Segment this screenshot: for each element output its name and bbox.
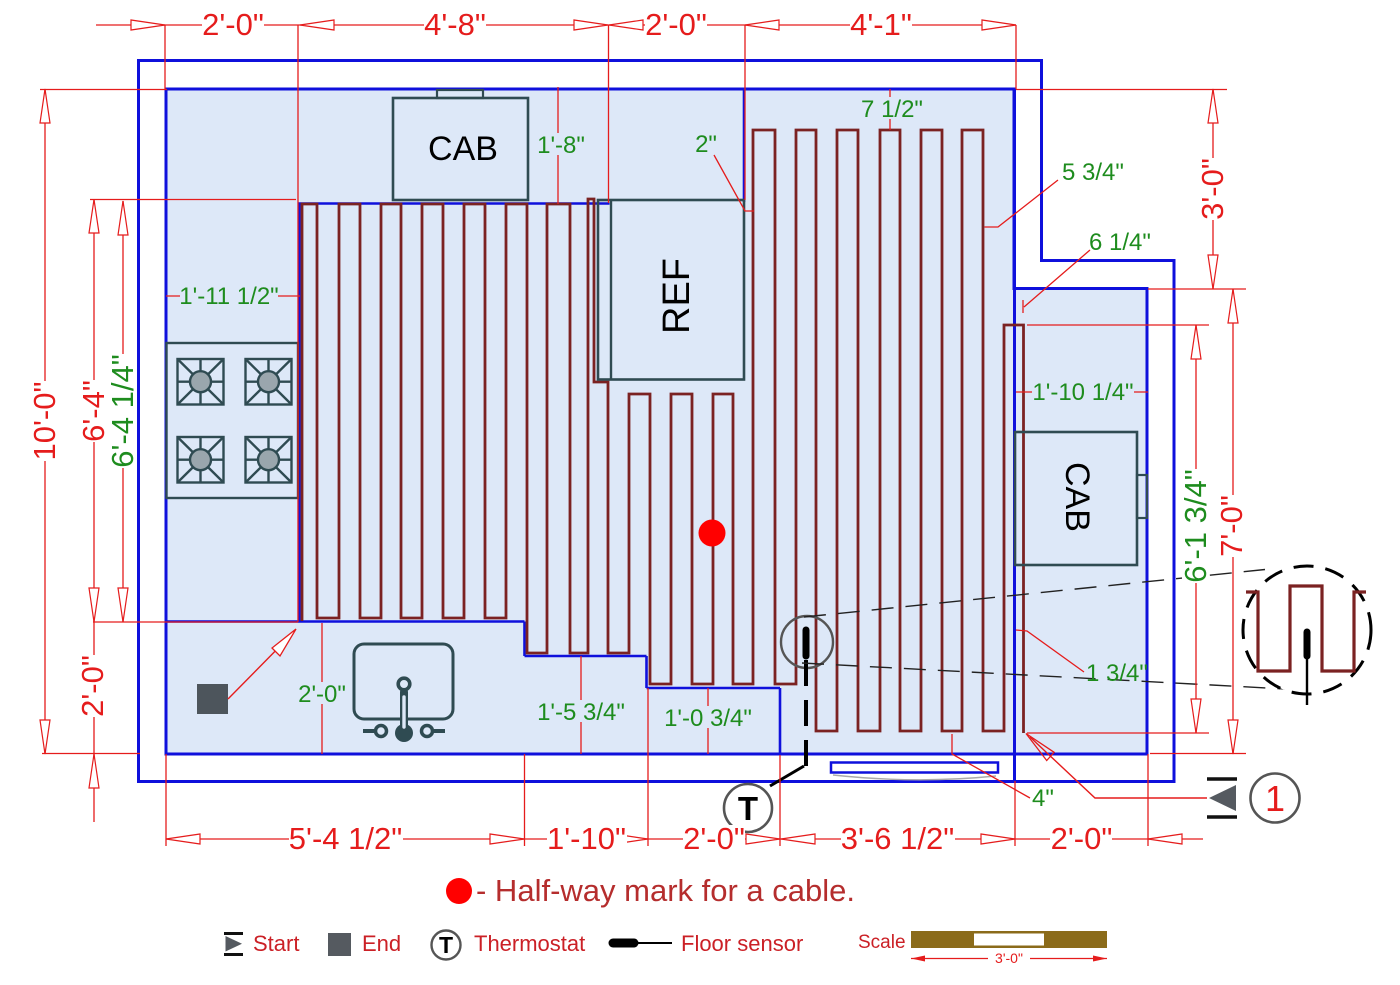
svg-text:1'-10": 1'-10" <box>547 821 626 856</box>
half-way mark red dot <box>699 520 726 547</box>
leader 6 1/4 <box>1023 250 1090 313</box>
sink bowl <box>354 644 453 719</box>
dim text 4'-8" top <box>424 7 486 42</box>
outer wall <box>139 61 1175 782</box>
sink faucet <box>363 678 445 742</box>
legend row <box>224 931 1107 967</box>
top <box>131 20 165 30</box>
svg-text:REF: REF <box>656 258 698 334</box>
svg-text:4'-8": 4'-8" <box>424 7 486 42</box>
svg-text:10'-0": 10'-0" <box>27 382 62 461</box>
dim text 2'-0" top-2 <box>645 7 707 42</box>
left vertical <box>40 89 50 123</box>
dimension arrowheads <box>40 20 1238 844</box>
dim text 4'-1" top <box>850 7 912 42</box>
top dim line <box>96 24 1016 26</box>
zone line x=744 <box>743 89 746 202</box>
svg-text:6'-4 1/4": 6'-4 1/4" <box>105 354 140 467</box>
zone step x=780 <box>779 688 782 754</box>
zone line x=300 <box>298 203 301 622</box>
svg-text:7 1/2": 7 1/2" <box>861 96 923 123</box>
label 2'-0" green <box>297 681 347 708</box>
label 1'-5 3/4" <box>537 699 625 726</box>
start marker leader <box>1030 737 1207 798</box>
green dimension texts <box>179 96 1151 812</box>
zone step y=688 <box>647 687 781 690</box>
zone step x=646 <box>645 656 648 688</box>
floor sensor tip <box>803 630 810 656</box>
leader 4in <box>952 734 1030 798</box>
detail sensor <box>1304 632 1311 656</box>
svg-text:T: T <box>439 932 453 958</box>
svg-text:1: 1 <box>1265 778 1285 819</box>
zone step x=524 <box>523 622 526 657</box>
refrigerator inner line <box>610 200 612 380</box>
svg-text:6'-1 3/4": 6'-1 3/4" <box>1178 469 1213 582</box>
svg-text:Start: Start <box>253 931 299 956</box>
thermostat circle <box>724 784 772 832</box>
svg-text:2'-0": 2'-0" <box>1051 821 1113 856</box>
svg-text:5'-4 1/2": 5'-4 1/2" <box>289 821 402 856</box>
svg-text:7'-0": 7'-0" <box>1214 495 1249 557</box>
dim text 2'-0" top-1 <box>202 7 264 42</box>
floor area fill <box>166 89 1147 754</box>
label 7 1/2" <box>858 96 926 123</box>
zone line x=1015 vertical <box>1013 89 1016 782</box>
svg-text:4'-1": 4'-1" <box>850 7 912 42</box>
right cabinet CAB <box>1015 432 1137 565</box>
half-way legend <box>446 878 472 904</box>
stove body <box>167 343 299 498</box>
svg-text:2'-0": 2'-0" <box>298 681 346 708</box>
thermostat symbol <box>432 931 461 960</box>
right cabinet handle <box>1137 475 1147 518</box>
top cabinet handle <box>437 90 483 98</box>
svg-text:CAB: CAB <box>1058 462 1096 532</box>
svg-text:1'-0 3/4": 1'-0 3/4" <box>664 705 752 732</box>
bottom extensions <box>165 754 167 846</box>
dim text 10'-0" left <box>27 381 62 461</box>
top cabinet CAB <box>393 98 528 200</box>
label 1'-8" <box>536 132 586 159</box>
end marker square <box>197 684 228 714</box>
detail cable <box>1246 586 1366 671</box>
dim text 6'-4 1/4" green <box>105 354 140 468</box>
dim text 2'-0" bottom <box>683 821 745 856</box>
svg-text:2'-0": 2'-0" <box>75 655 110 717</box>
door swing arc <box>833 775 996 780</box>
dimension texts <box>27 7 1249 856</box>
refrigerator REF <box>598 200 744 380</box>
bottom dim line <box>166 838 1203 840</box>
svg-text:3'-0": 3'-0" <box>995 950 1023 966</box>
label 1'-10 1/4" <box>1032 379 1134 406</box>
svg-text:2'-0": 2'-0" <box>202 7 264 42</box>
room floor boundary <box>166 89 1147 754</box>
svg-text:1'-8": 1'-8" <box>537 132 585 159</box>
svg-text:6 1/4": 6 1/4" <box>1089 229 1151 256</box>
svg-text:3'-6 1/2": 3'-6 1/2" <box>841 821 954 856</box>
right dims <box>1016 89 1227 91</box>
floor sensor wire dashed <box>804 660 808 770</box>
start symbol <box>224 932 243 935</box>
svg-text:2'-0": 2'-0" <box>683 821 745 856</box>
dim text 2'-0" left-bottom <box>75 655 110 717</box>
svg-text:5 3/4": 5 3/4" <box>1062 159 1124 186</box>
svg-text:1'-5 3/4": 1'-5 3/4" <box>537 699 625 726</box>
leader 5 3/4 <box>985 180 1059 227</box>
dim text 6'-4" left <box>76 380 111 442</box>
stove burners <box>178 359 292 483</box>
door leaf <box>831 763 998 773</box>
dim text 3'-0" right <box>1195 158 1230 220</box>
svg-text:End: End <box>362 931 401 956</box>
leader 1 3/4 <box>1016 630 1084 672</box>
wire to thermostat <box>770 766 804 786</box>
floor sensor symbol <box>613 939 634 948</box>
dim text 1'-10" bottom <box>547 821 627 856</box>
zone line y=621 sink strip top <box>166 620 525 623</box>
svg-text:Thermostat: Thermostat <box>474 931 585 956</box>
bottom <box>166 834 200 844</box>
zone step y=656 <box>525 655 647 658</box>
end marker leader <box>228 633 293 699</box>
svg-text:Scale: Scale <box>858 932 906 953</box>
detail callout dashed lines <box>804 570 1265 618</box>
label 1'-11 1/2" <box>179 283 278 310</box>
svg-text:1 3/4": 1 3/4" <box>1086 660 1148 687</box>
svg-text:2'-0": 2'-0" <box>645 7 707 42</box>
svg-text:1'-10 1/4": 1'-10 1/4" <box>1032 379 1133 406</box>
svg-text:4": 4" <box>1032 785 1054 812</box>
left dims <box>44 89 46 754</box>
svg-text:CAB: CAB <box>428 130 498 168</box>
floor sensor circle <box>781 616 833 668</box>
DIMENSIONS <box>40 25 1246 846</box>
label 1'-0 3/4" <box>664 705 752 732</box>
zone line y=204 <box>298 202 610 205</box>
svg-text:3'-0": 3'-0" <box>1195 158 1230 220</box>
top extension lines <box>164 25 166 89</box>
end symbol <box>328 933 351 956</box>
dim text 6'-1 3/4" green <box>1178 469 1213 583</box>
leader 2in <box>714 155 754 211</box>
dim text 2'-0" bottom-right <box>1050 821 1112 856</box>
dim text 5'-4 1/2" bottom <box>289 821 403 856</box>
dim text 3'-6 1/2" bottom <box>841 821 955 856</box>
dim text 7'-0" right <box>1214 495 1249 557</box>
small green-dim red lines <box>557 87 559 204</box>
right vertical <box>1208 89 1218 123</box>
heating cable serpentine (single run) <box>302 130 1024 733</box>
number 1 circle <box>1251 774 1300 823</box>
svg-text:2": 2" <box>695 131 717 158</box>
svg-text:- Half-way mark for a cable.: - Half-way mark for a cable. <box>476 873 855 908</box>
svg-text:1'-11 1/2": 1'-11 1/2" <box>179 283 278 310</box>
svg-text:Floor sensor: Floor sensor <box>681 931 803 956</box>
start marker <box>1207 777 1237 780</box>
detail circle dashed <box>1243 566 1371 694</box>
